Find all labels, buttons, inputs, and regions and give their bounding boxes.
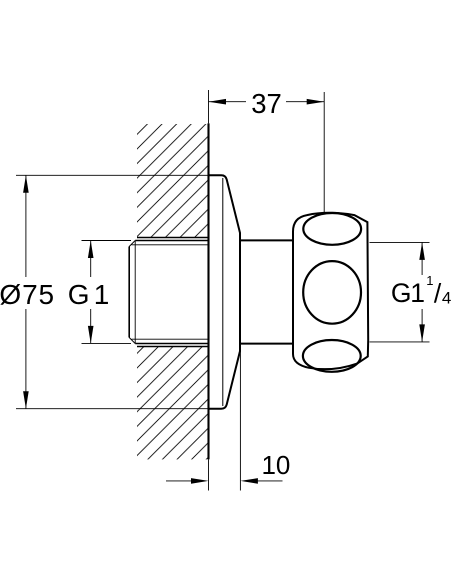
svg-text:4: 4 [442, 288, 451, 307]
dim D75 line lower segment [25, 309, 27, 409]
svg-text:10: 10 [261, 450, 290, 480]
svg-text:G: G [68, 279, 90, 310]
wall hole lower edge [137, 346, 209, 348]
dim 37 left extension line [208, 90, 210, 123]
dim 37 right extension line [323, 92, 325, 213]
dim 10 arrow pointing left [240, 478, 258, 484]
svg-text:/: / [434, 278, 442, 308]
dim G1 arrow up [88, 241, 94, 259]
dim 37 line right segment [286, 101, 324, 103]
dim 37 arrow left [209, 99, 227, 105]
nut top dimple ellipse [303, 213, 361, 245]
dim G1 line upper segment [90, 241, 92, 278]
dim G1quarter arrow up [419, 242, 425, 260]
wall hatch lower band [137, 347, 208, 460]
flange outline [209, 175, 241, 408]
dim 10 left extension line [208, 459, 210, 490]
G1 spigot chamfer top [129, 241, 135, 247]
dim G1quarter bottom extension line [370, 341, 430, 343]
dim G1quarter top extension line [370, 241, 430, 243]
svg-text:1: 1 [94, 279, 110, 310]
wall face line [207, 123, 209, 459]
dim G1quarter line upper segment [421, 242, 423, 275]
dim D75 arrow down [23, 391, 29, 409]
dim G1quarter arrow down [419, 324, 425, 342]
G1 spigot thread root bottom [132, 338, 209, 340]
union nut outline [293, 213, 368, 369]
wall hole upper edge [137, 237, 209, 239]
dim 10 right extension line [239, 351, 241, 490]
G1 spigot thread crest bottom [135, 343, 208, 345]
dim D75 top extension line [16, 174, 209, 176]
dim G1 bottom extension line [82, 342, 132, 344]
dim 10 left leader line [166, 480, 192, 482]
G1 spigot thread crest top [135, 240, 208, 242]
G1 spigot thread root top [132, 244, 209, 246]
dim 37 arrow right [307, 99, 325, 105]
dim D75 bottom extension line [16, 408, 216, 410]
dim D75 line upper segment [25, 175, 27, 277]
svg-text:G1: G1 [391, 278, 424, 308]
svg-text:37: 37 [251, 88, 282, 119]
G1 spigot thread run-out edge [134, 241, 136, 344]
dim G1 line lower segment [90, 309, 92, 343]
dim 37 line left segment [209, 101, 247, 103]
dim 10 arrow pointing right [191, 478, 209, 484]
G1 spigot chamfer bottom [129, 338, 135, 344]
dim G1 top extension line [82, 240, 132, 242]
dim 10 right leader line [257, 480, 283, 482]
nut middle dimple ellipse [303, 261, 361, 324]
neck top line [240, 239, 294, 241]
G1 spigot end face [128, 247, 130, 338]
wall hatch upper band [137, 124, 208, 237]
nut bottom dimple ellipse [303, 340, 361, 372]
neck bottom line [240, 343, 294, 345]
svg-text:Ø75: Ø75 [0, 279, 55, 310]
flange cone junction edge [222, 178, 224, 406]
dim D75 arrow up [23, 175, 29, 193]
dim G1quarter line lower segment [421, 309, 423, 342]
svg-text:1: 1 [426, 273, 433, 288]
dim G1 arrow down [88, 326, 94, 344]
